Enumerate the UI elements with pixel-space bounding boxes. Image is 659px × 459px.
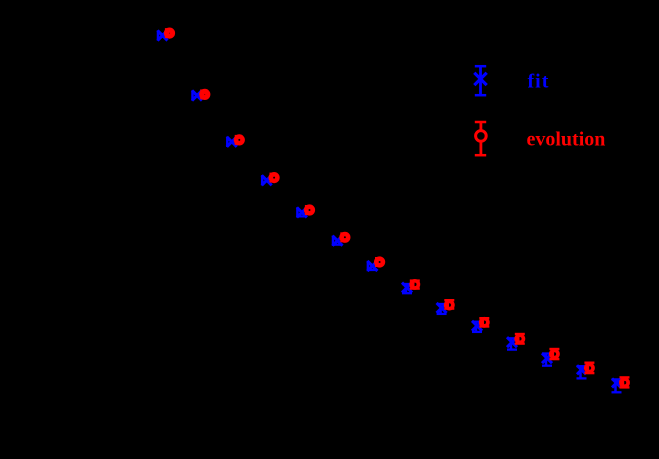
data point 13: fit (blue X marker with error bar) [577,365,587,378]
data point 9: fit (blue X marker with error bar) [437,303,447,314]
data point 1: evolution (red open circle with error bar) [166,28,173,38]
data point 7: evolution (red open circle with error bar) [376,257,383,267]
svg-text:evolution: evolution [527,129,606,151]
data point 13: evolution (red open circle with error bar) [584,363,594,373]
data point 3: evolution (red open circle with error bar) [236,135,243,145]
data point 11: fit (blue X marker with error bar) [507,337,517,349]
data point 12: fit (blue X marker with error bar) [542,353,552,366]
data point 9: evolution (red open circle with error bar) [444,300,454,308]
data point 2: evolution (red open circle with error bar) [201,89,208,99]
data point 1: fit (blue X marker with error bar) [158,30,168,40]
data point 5: evolution (red open circle with error bar) [306,205,313,215]
data point 8: fit (blue X marker with error bar) [402,283,412,294]
data point 8: evolution (red open circle with error bar) [410,281,420,289]
data point 4: evolution (red open circle with error bar) [271,173,278,183]
data point 5: fit (blue X marker with error bar) [297,207,307,217]
legend: fit sample (blue error bar with X marker) [474,66,486,95]
legend: evolution sample (red error bar with open circle) [475,122,486,155]
data point 14: fit (blue X marker with error bar) [612,379,622,393]
data point 11: evolution (red open circle with error bar) [515,334,525,344]
data point 12: evolution (red open circle with error bar) [549,349,559,359]
svg-text:fit: fit [528,71,550,93]
data point 4: fit (blue X marker with error bar) [262,175,272,185]
data point 3: fit (blue X marker with error bar) [227,137,237,147]
data point 6: fit (blue X marker with error bar) [333,236,343,246]
data point 14: evolution (red open circle with error bar) [620,377,630,387]
data point 6: evolution (red open circle with error bar) [341,232,348,242]
data point 7: fit (blue X marker with error bar) [367,261,377,271]
data point 10: fit (blue X marker with error bar) [472,321,482,332]
data point 10: evolution (red open circle with error bar) [479,318,489,326]
data point 2: fit (blue X marker with error bar) [192,90,202,100]
